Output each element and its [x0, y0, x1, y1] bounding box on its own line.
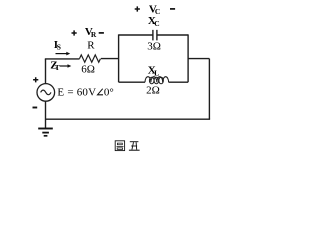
ground symbol: [38, 129, 53, 136]
wire box to right rail: [188, 58, 209, 60]
wire resistor to box: [101, 58, 119, 60]
capacitor branch wire left: [119, 34, 153, 36]
svg-text:6Ω: 6Ω: [81, 64, 95, 76]
label plus VR: [72, 30, 77, 35]
svg-text:0°: 0°: [104, 86, 114, 98]
svg-text:C: C: [154, 19, 159, 28]
capacitor XC plates: [153, 30, 157, 41]
svg-text:2Ω: 2Ω: [146, 85, 160, 97]
svg-text:E = 60V: E = 60V: [57, 86, 96, 98]
label angle symbol: [98, 89, 104, 95]
wire bottom horizontal: [46, 118, 211, 120]
label minus source: [33, 107, 38, 109]
svg-text:L: L: [154, 68, 159, 77]
label plus source: [33, 77, 38, 82]
resistor R zigzag: [80, 55, 101, 62]
wire left rail top: [45, 59, 47, 84]
current IS arrow: [56, 52, 71, 56]
caption glyph tu (figure): [115, 141, 124, 151]
inductor branch wire right: [169, 81, 189, 83]
impedance ZT arrow: [60, 64, 72, 68]
wire left rail bottom to ground: [45, 101, 47, 128]
inductor XL coil rings: [149, 77, 154, 84]
box right vertical: [187, 34, 189, 82]
box left vertical: [118, 34, 120, 82]
source E sine wave: [41, 90, 51, 95]
svg-text:3Ω: 3Ω: [147, 41, 161, 53]
capacitor branch wire right: [157, 34, 188, 36]
svg-text:T: T: [55, 63, 60, 72]
wire top horizontal: [45, 58, 80, 60]
inductor branch wire left: [119, 81, 145, 83]
wire right rail: [208, 59, 210, 120]
label minus VR: [99, 32, 104, 34]
label plus VC: [135, 6, 140, 11]
svg-text:S: S: [57, 43, 61, 52]
svg-text:R: R: [91, 30, 97, 39]
label minus VC: [170, 8, 175, 10]
source E circle: [37, 84, 55, 102]
svg-text:R: R: [87, 39, 95, 51]
caption glyph wu (five): [129, 142, 140, 151]
inductor XL coil humps: [145, 77, 169, 83]
